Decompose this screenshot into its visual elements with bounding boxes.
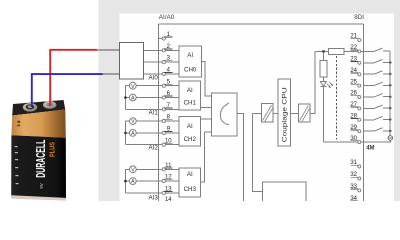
svg-text:V: V xyxy=(131,167,135,173)
svg-text:33: 33 xyxy=(350,184,357,190)
svg-text:34: 34 xyxy=(350,196,357,201)
svg-text:10: 10 xyxy=(165,138,172,144)
svg-text:A: A xyxy=(131,179,135,185)
svg-text:V: V xyxy=(131,84,135,90)
svg-text:27: 27 xyxy=(350,102,357,108)
svg-text:12: 12 xyxy=(165,175,172,181)
svg-text:29: 29 xyxy=(350,125,357,131)
svg-text:PLUS: PLUS xyxy=(47,142,56,157)
svg-text:AI2: AI2 xyxy=(149,145,159,152)
svg-text:25: 25 xyxy=(350,79,357,85)
svg-text:AI: AI xyxy=(187,87,193,94)
svg-text:13: 13 xyxy=(165,187,172,193)
svg-text:14: 14 xyxy=(165,197,172,201)
svg-text:23: 23 xyxy=(350,57,357,63)
svg-text:30: 30 xyxy=(350,136,357,142)
svg-text:31: 31 xyxy=(350,160,357,166)
svg-text:CH0: CH0 xyxy=(184,67,197,74)
svg-text:CH1: CH1 xyxy=(184,100,197,107)
svg-text:AI: AI xyxy=(187,171,193,178)
svg-text:AI3: AI3 xyxy=(149,195,159,201)
svg-text:CH3: CH3 xyxy=(184,186,197,193)
svg-text:A: A xyxy=(131,131,135,137)
svg-text:AI0: AI0 xyxy=(149,75,159,82)
svg-text:A: A xyxy=(131,96,135,102)
svg-text:26: 26 xyxy=(350,91,357,97)
svg-text:DURACELL: DURACELL xyxy=(33,140,48,178)
svg-text:22: 22 xyxy=(350,45,357,51)
svg-text:28: 28 xyxy=(350,114,357,120)
svg-text:9V: 9V xyxy=(39,183,44,189)
svg-text:CH2: CH2 xyxy=(184,136,197,143)
svg-text:AI: AI xyxy=(187,123,193,130)
svg-text:4M: 4M xyxy=(366,146,374,152)
svg-text:Couplage CPU: Couplage CPU xyxy=(282,87,289,142)
svg-text:11: 11 xyxy=(165,163,172,169)
svg-text:V: V xyxy=(131,119,135,125)
svg-text:24: 24 xyxy=(350,68,357,74)
svg-text:AI/A0: AI/A0 xyxy=(159,14,175,21)
svg-text:AI1: AI1 xyxy=(149,110,159,117)
svg-text:21: 21 xyxy=(350,34,357,40)
svg-text:8DI: 8DI xyxy=(354,14,364,21)
svg-text:AI: AI xyxy=(187,52,193,59)
svg-text:32: 32 xyxy=(350,172,357,178)
